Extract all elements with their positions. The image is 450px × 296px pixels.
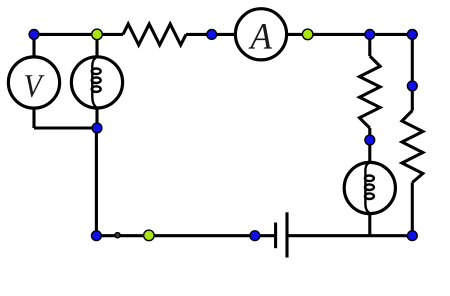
node between R2 and lamp L2 (blue) — [365, 135, 375, 145]
node after R1 (blue) — [207, 30, 217, 40]
wire node down to resistor R3 — [411, 86, 414, 111]
wire lamp L2 to bottom wire — [368, 214, 371, 236]
wire yellow node down to lamp L1 — [95, 34, 98, 57]
node yellow on bottom wire — [144, 230, 155, 241]
resistor R1 (top horizontal) — [123, 24, 186, 45]
wire battery to bottom-right corner — [287, 234, 412, 237]
ammeter label A — [248, 24, 271, 49]
wire resistor R2 to node — [368, 128, 371, 140]
resistor R3 (right vertical) — [402, 111, 423, 183]
battery B1 short plate — [274, 223, 277, 249]
wire lamp L1 bottom to node — [95, 108, 98, 128]
wire voltmeter to lamp bottom node — [34, 126, 97, 129]
node bottom-right corner (blue) — [407, 231, 417, 241]
lamp L1 circle — [71, 57, 122, 108]
wire junction down to resistor R2 — [368, 34, 371, 56]
wire resistor R3 to bottom-right corner — [411, 183, 414, 236]
wire node to lamp L2 — [368, 140, 371, 163]
voltmeter label V — [25, 75, 44, 97]
wire bottom-left corner to battery — [96, 234, 275, 237]
wire yellow node to resistor R1 — [97, 33, 123, 36]
node top-left (blue) — [29, 30, 39, 40]
node left of battery (blue) — [250, 231, 260, 241]
node bottom-left corner (blue) — [92, 231, 102, 241]
lamp L2 filament coil — [365, 162, 374, 213]
wire top-left node to yellow node — [34, 33, 97, 36]
lamp L2 circle — [344, 162, 395, 213]
battery B1 long plate — [285, 212, 288, 257]
voltmeter U2 circle — [8, 57, 59, 108]
node small gray on bottom wire — [115, 233, 120, 238]
node top lamp junction (yellow) — [92, 29, 103, 40]
wire voltmeter bottom down — [32, 108, 35, 128]
wire node down left column — [95, 128, 98, 236]
wire yellow node to junction node — [308, 33, 370, 36]
lamp L1 filament coil — [92, 57, 101, 108]
node top junction R2 (blue) — [365, 30, 375, 40]
node lamp L1 bottom junction (blue) — [92, 123, 102, 133]
node top-right corner (blue) — [407, 30, 417, 40]
node after ammeter (yellow) — [302, 29, 313, 40]
wire junction to top-right corner — [370, 33, 413, 36]
wire top-left node down to voltmeter V — [32, 34, 35, 57]
wire resistor R1 to node — [186, 33, 212, 36]
wire top-right corner down to node — [411, 34, 414, 86]
node right branch (blue) — [407, 81, 417, 91]
resistor R2 (middle vertical) — [360, 56, 381, 128]
ammeter U1 circle — [235, 9, 286, 60]
wire ammeter to yellow node — [287, 33, 308, 36]
wire node to ammeter A — [212, 33, 236, 36]
